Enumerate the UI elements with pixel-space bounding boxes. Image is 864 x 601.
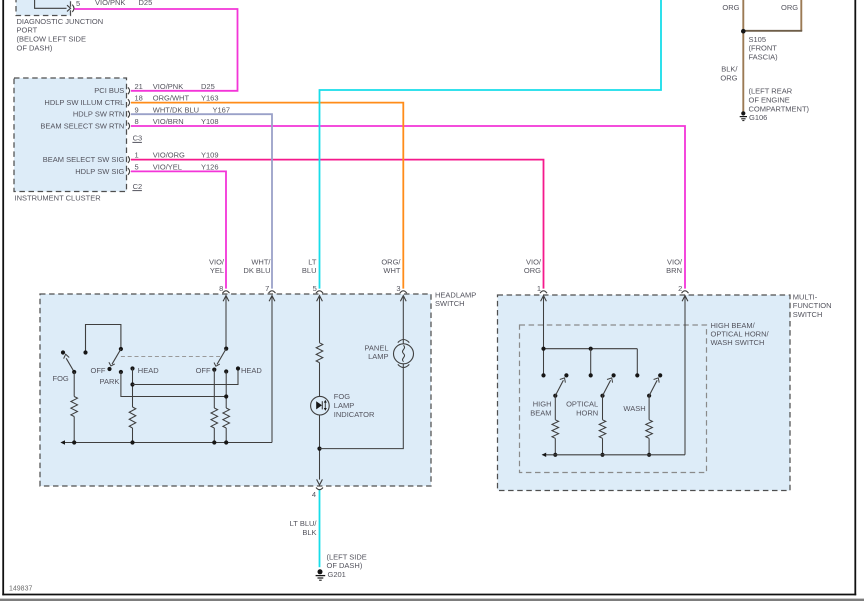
svg-text:VIO/: VIO/ xyxy=(209,257,225,266)
svg-text:(LEFT REAR: (LEFT REAR xyxy=(749,87,793,96)
svg-text:WHT: WHT xyxy=(383,266,400,275)
svg-text:WHT/: WHT/ xyxy=(251,257,271,266)
svg-text:OF DASH): OF DASH) xyxy=(17,43,53,52)
svg-text:BLK: BLK xyxy=(302,528,316,537)
svg-text:18: 18 xyxy=(135,94,143,103)
svg-text:PANEL: PANEL xyxy=(364,343,388,352)
svg-text:FOG: FOG xyxy=(334,392,350,401)
svg-text:HDLP SW RTN: HDLP SW RTN xyxy=(73,110,124,119)
svg-text:ORG: ORG xyxy=(720,73,737,82)
svg-text:BLK/: BLK/ xyxy=(721,65,738,74)
svg-text:HORN: HORN xyxy=(576,409,598,418)
svg-text:OF DASH): OF DASH) xyxy=(327,561,363,570)
svg-text:HDLP SW SIG: HDLP SW SIG xyxy=(75,167,124,176)
svg-text:BRN: BRN xyxy=(666,266,682,275)
svg-text:OFF: OFF xyxy=(91,366,106,375)
svg-text:VIO/BRN: VIO/BRN xyxy=(153,117,184,126)
svg-text:INSTRUMENT CLUSTER: INSTRUMENT CLUSTER xyxy=(15,193,102,202)
svg-text:ORG: ORG xyxy=(524,266,541,275)
svg-text:S105: S105 xyxy=(749,35,767,44)
svg-text:1: 1 xyxy=(537,284,541,293)
svg-text:LT BLU/: LT BLU/ xyxy=(290,519,318,528)
svg-text:(BELOW LEFT SIDE: (BELOW LEFT SIDE xyxy=(17,35,86,44)
svg-text:HDLP SW ILLUM CTRL: HDLP SW ILLUM CTRL xyxy=(44,98,124,107)
svg-text:PCI BUS: PCI BUS xyxy=(94,86,124,95)
svg-text:DK BLU: DK BLU xyxy=(243,266,270,275)
svg-text:INDICATOR: INDICATOR xyxy=(334,410,375,419)
svg-text:BEAM SELECT SW SIG: BEAM SELECT SW SIG xyxy=(43,155,125,164)
svg-text:8: 8 xyxy=(135,117,139,126)
svg-text:BLU: BLU xyxy=(302,266,317,275)
svg-text:(FRONT: (FRONT xyxy=(749,44,778,53)
svg-text:Y167: Y167 xyxy=(213,105,231,114)
svg-text:VIO/: VIO/ xyxy=(526,257,542,266)
svg-text:ORG: ORG xyxy=(722,3,739,12)
svg-text:LAMP: LAMP xyxy=(334,401,354,410)
svg-text:SWITCH: SWITCH xyxy=(435,299,465,308)
svg-text:HEADLAMP: HEADLAMP xyxy=(435,290,476,299)
svg-text:(LEFT SIDE: (LEFT SIDE xyxy=(327,552,367,561)
svg-text:8: 8 xyxy=(219,284,223,293)
svg-text:Y126: Y126 xyxy=(201,163,219,172)
svg-text:VIO/: VIO/ xyxy=(667,257,683,266)
svg-text:Y163: Y163 xyxy=(201,94,219,103)
svg-text:LT: LT xyxy=(308,257,317,266)
svg-text:LAMP: LAMP xyxy=(368,352,388,361)
svg-text:ORG/WHT: ORG/WHT xyxy=(153,94,190,103)
svg-text:VIO/PNK: VIO/PNK xyxy=(153,82,183,91)
svg-text:HEAD: HEAD xyxy=(241,366,262,375)
svg-text:D25: D25 xyxy=(139,0,153,7)
svg-text:21: 21 xyxy=(135,82,143,91)
svg-text:5: 5 xyxy=(76,0,80,8)
svg-text:5: 5 xyxy=(135,163,139,172)
svg-text:PARK: PARK xyxy=(100,377,120,386)
svg-text:BEAM SELECT SW RTN: BEAM SELECT SW RTN xyxy=(40,121,124,130)
svg-text:149837: 149837 xyxy=(9,585,32,592)
svg-text:SWITCH: SWITCH xyxy=(793,310,823,319)
svg-text:FOG: FOG xyxy=(53,374,69,383)
svg-text:C3: C3 xyxy=(133,134,143,143)
svg-text:VIO/PNK: VIO/PNK xyxy=(95,0,125,7)
svg-text:VIO/ORG: VIO/ORG xyxy=(153,151,185,160)
svg-text:WHT/DK BLU: WHT/DK BLU xyxy=(153,105,199,114)
svg-text:FUNCTION: FUNCTION xyxy=(793,301,832,310)
svg-text:OF ENGINE: OF ENGINE xyxy=(749,96,790,105)
svg-text:ORG: ORG xyxy=(781,3,798,12)
svg-text:G201: G201 xyxy=(328,570,346,579)
svg-text:OPTICAL: OPTICAL xyxy=(566,400,598,409)
svg-text:3: 3 xyxy=(396,284,400,293)
svg-text:G106: G106 xyxy=(749,113,767,122)
svg-text:5: 5 xyxy=(313,284,317,293)
svg-text:OFF: OFF xyxy=(196,366,211,375)
svg-text:Y109: Y109 xyxy=(201,151,219,160)
svg-text:2: 2 xyxy=(678,284,682,293)
svg-text:7: 7 xyxy=(265,284,269,293)
svg-text:Y108: Y108 xyxy=(201,117,219,126)
svg-text:HEAD: HEAD xyxy=(138,366,159,375)
svg-text:PORT: PORT xyxy=(17,25,38,34)
svg-text:1: 1 xyxy=(135,151,139,160)
svg-text:D25: D25 xyxy=(201,82,215,91)
svg-text:WASH SWITCH: WASH SWITCH xyxy=(711,338,765,347)
svg-text:4: 4 xyxy=(312,490,316,499)
svg-text:ORG/: ORG/ xyxy=(381,257,401,266)
svg-text:HIGH: HIGH xyxy=(533,400,552,409)
svg-text:BEAM: BEAM xyxy=(530,409,551,418)
svg-text:WASH: WASH xyxy=(623,404,645,413)
svg-text:9: 9 xyxy=(135,105,139,114)
svg-text:FASCIA): FASCIA) xyxy=(749,53,779,62)
svg-text:VIO/YEL: VIO/YEL xyxy=(153,163,182,172)
svg-text:C2: C2 xyxy=(133,182,143,191)
svg-text:YEL: YEL xyxy=(210,266,224,275)
